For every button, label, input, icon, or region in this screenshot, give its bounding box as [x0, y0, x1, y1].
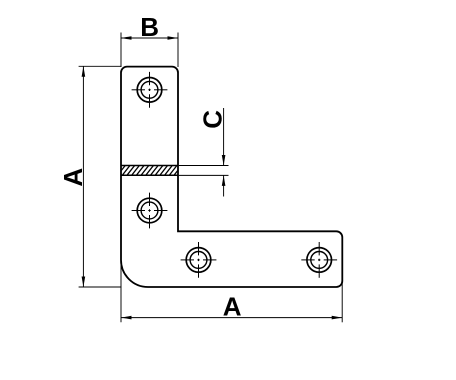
dimension A bottom dimension line [121, 317, 342, 319]
section strip hatching [117, 165, 182, 177]
dimension C upper arrowhead [222, 155, 226, 166]
dimension C leader line upper [223, 108, 225, 166]
dimension A bottom left arrowhead [121, 316, 132, 320]
dimension C lower arrowhead [222, 175, 226, 186]
L-bracket outline [121, 67, 342, 287]
svg-text:C: C [198, 110, 228, 129]
svg-text:A: A [58, 168, 88, 187]
dimension B extension line left [120, 33, 122, 68]
hole 4 inner circle [311, 252, 328, 269]
hole 2 centerlines [132, 193, 168, 229]
dimension A left top arrowhead [82, 66, 86, 77]
dimension B extension line right [177, 33, 179, 68]
dimension A bottom extension line right [341, 278, 343, 322]
dimension B right arrowhead [168, 36, 179, 40]
dimension A bottom right arrowhead [332, 316, 343, 320]
dimension B dimension line [121, 37, 178, 39]
section strip top edge [121, 165, 178, 167]
hole 1 inner circle [141, 81, 158, 98]
dimension A left extension line top [79, 65, 122, 67]
dimension A bottom extension line left [120, 252, 122, 322]
svg-text:B: B [140, 12, 159, 42]
dimension C extension line bottom [179, 174, 229, 176]
svg-text:A: A [223, 292, 242, 322]
hole 3 inner circle [190, 252, 207, 269]
hole 4 centerlines [301, 242, 337, 278]
section strip bottom edge [121, 174, 178, 176]
dimension B left arrowhead [121, 36, 132, 40]
dimension A left extension line bottom [79, 286, 122, 288]
hole 1 outer circle [137, 78, 162, 103]
hole 3 centerlines [181, 242, 217, 278]
hole 2 outer circle [137, 198, 162, 223]
dimension C extension line top [179, 165, 229, 167]
hole 2 inner circle [141, 202, 158, 219]
dimension A left dimension line [82, 66, 84, 287]
hole 4 outer circle [307, 248, 332, 273]
dimension A left bottom arrowhead [82, 277, 86, 288]
hole 1 centerlines [132, 72, 168, 108]
dimension C leader line lower [223, 175, 225, 196]
hole 3 outer circle [186, 248, 211, 273]
